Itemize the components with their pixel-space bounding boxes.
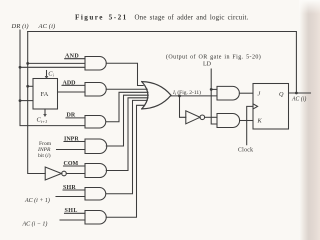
junction dots xyxy=(19,62,298,102)
svg-text:Q: Q xyxy=(279,91,284,98)
wire: COM control stub xyxy=(64,165,86,167)
svg-text:Figure 5-21: Figure 5-21 xyxy=(75,14,128,22)
svg-text:FA: FA xyxy=(41,91,49,98)
wire: AND gate output to OR xyxy=(106,63,143,85)
wire: ADD gate output to OR xyxy=(106,88,147,90)
node AC-FA xyxy=(26,85,29,88)
AND gate SHL xyxy=(85,211,106,225)
wire: INPR bit input xyxy=(57,149,86,151)
full adder FA xyxy=(33,79,58,110)
wire: DR(i) vertical line xyxy=(20,30,85,126)
wire: INPR gate output to OR xyxy=(106,95,148,146)
clock triangle xyxy=(253,104,258,109)
arrowhead Ci xyxy=(45,76,49,79)
wire: DR to FA xyxy=(20,100,33,102)
AND gate K xyxy=(217,114,240,128)
wire: clock xyxy=(247,106,253,144)
AND gate COM xyxy=(85,164,107,178)
AND gate (AND microop) xyxy=(85,57,106,71)
AND gate DR xyxy=(85,116,106,129)
svg-text:Ii (Fig. 2-11): Ii (Fig. 2-11) xyxy=(172,89,201,96)
wire: inverter1 output to COM gate xyxy=(66,173,85,175)
wire: LD vertical xyxy=(211,69,217,124)
svg-text:SHR: SHR xyxy=(63,185,76,191)
svg-text:LD: LD xyxy=(203,62,212,68)
svg-text:One stage of adder and logic c: One stage of adder and logic circuit. xyxy=(135,15,249,22)
wire: J gate to FF xyxy=(239,92,253,94)
svg-text:bit (i): bit (i) xyxy=(38,152,51,159)
wire: LD to J gate xyxy=(211,88,217,90)
wire: OR output Ii xyxy=(171,95,217,97)
node Ii branch xyxy=(178,95,181,98)
wire: K gate to FF xyxy=(240,120,253,122)
wire: SHR control stub xyxy=(63,189,85,191)
svg-text:INPR: INPR xyxy=(64,137,79,143)
wire: AC to FA xyxy=(28,85,33,87)
node LD-J xyxy=(210,88,213,91)
svg-text:AC (i): AC (i) xyxy=(38,23,56,30)
svg-text:DR: DR xyxy=(67,113,76,119)
wire: COM gate output to OR xyxy=(106,98,148,171)
wire: AC(i-1) input xyxy=(60,219,85,221)
OR gate xyxy=(142,82,148,109)
svg-text:ADD: ADD xyxy=(63,80,77,86)
svg-text:(Output of OR gate in Fig. 5-2: (Output of OR gate in Fig. 5-20) xyxy=(166,53,261,60)
svg-text:AC (i − 1): AC (i − 1) xyxy=(22,220,48,227)
wire: Q output xyxy=(289,92,311,94)
wire: AND control stub xyxy=(65,58,85,60)
AND gate INPR xyxy=(85,139,107,154)
wire: inverter2 out to K gate xyxy=(205,116,217,118)
wire: FA output to ADD gate xyxy=(58,91,86,93)
node DR-FA xyxy=(19,99,22,102)
svg-text:SHL: SHL xyxy=(65,208,78,214)
inverter2 xyxy=(186,111,200,124)
wire: INPR control stub xyxy=(64,141,85,143)
wire: DR gate output to OR xyxy=(106,92,148,121)
wire: DR control stub xyxy=(66,117,85,119)
wire: AC to AND gate xyxy=(28,62,85,64)
JK flip-flop box xyxy=(253,84,289,130)
svg-text:J: J xyxy=(258,91,261,98)
svg-text:AC (i + 1): AC (i + 1) xyxy=(24,197,50,204)
inverter (COM path) xyxy=(45,167,61,180)
svg-text:INPR: INPR xyxy=(37,147,51,153)
svg-text:Clock: Clock xyxy=(238,147,253,153)
AND gate ADD xyxy=(85,83,106,97)
svg-text:COM: COM xyxy=(64,161,79,167)
wire: DR to AND gate xyxy=(20,66,85,68)
wire: AC(i+1) input xyxy=(56,196,85,198)
wire: SHL control stub xyxy=(65,212,86,214)
svg-text:AC (i): AC (i) xyxy=(291,96,306,103)
node AC-AND xyxy=(26,62,29,65)
wire: SHL gate output to OR xyxy=(106,105,144,217)
wire: top feedback from Q to AC(i) line xyxy=(28,32,297,94)
arrowhead Ci+1 xyxy=(43,114,47,117)
wire: ADD control stub xyxy=(62,84,85,86)
AND gate SHR xyxy=(85,188,106,201)
wire: SHR gate output to OR xyxy=(106,100,147,193)
svg-text:AND: AND xyxy=(65,53,79,59)
wire: AC(i) vertical line xyxy=(28,32,46,174)
node DR-AND xyxy=(19,66,22,69)
wire: branch to inverter2 xyxy=(180,96,186,117)
carry out Ci+1 arrow xyxy=(44,109,46,114)
svg-text:DR (i): DR (i) xyxy=(11,23,29,30)
AND gate J xyxy=(217,86,239,100)
node Q feedback xyxy=(295,92,298,95)
carry in Ci arrow xyxy=(46,71,48,77)
svg-text:K: K xyxy=(257,117,263,124)
